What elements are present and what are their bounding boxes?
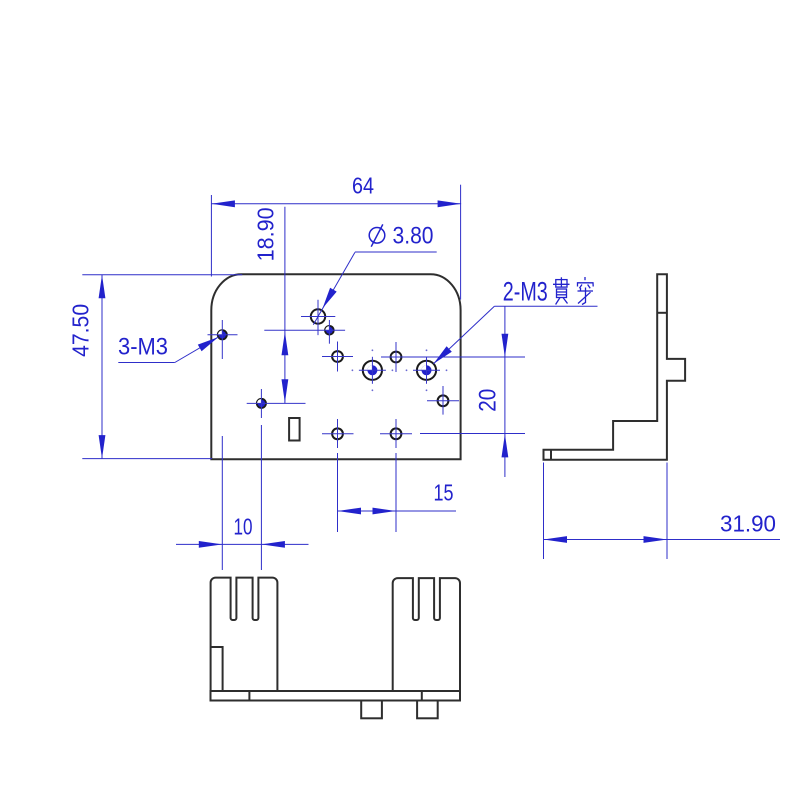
centerline cross and dots of hole H6 xyxy=(359,357,386,384)
rectangular slot in plate xyxy=(289,418,300,441)
bottom view base bar xyxy=(211,691,461,701)
hole H5 small hole row2 right xyxy=(391,352,402,363)
base bar seam left xyxy=(248,691,250,701)
centerline cross of hole H11 xyxy=(247,389,306,418)
centerline cross of hole H9 xyxy=(322,419,354,448)
leader and label 3-M3 xyxy=(118,337,218,362)
centerline cross of hole H3 (extends left to 18.90 reference) xyxy=(264,320,345,344)
centerline cross of hole H5 xyxy=(395,342,397,372)
side view seam line in vertical wall xyxy=(657,312,667,314)
bottom view tab right xyxy=(417,701,438,719)
CJK character guan (pierce) xyxy=(553,277,570,304)
svg-text:3.80: 3.80 xyxy=(393,223,434,250)
hole H10 bottom row right xyxy=(391,428,402,439)
dimension 20 vertical right xyxy=(381,306,525,477)
svg-text:20: 20 xyxy=(475,389,502,412)
leader and label 2-M3 through (CJK) xyxy=(434,306,598,363)
dimension 31.90 below side view xyxy=(544,463,781,560)
hole H6 2-M3 through hole left xyxy=(363,361,382,380)
side view L-bracket outline xyxy=(544,274,686,460)
svg-text:3-M3: 3-M3 xyxy=(118,334,168,361)
svg-text:47.50: 47.50 xyxy=(68,304,94,357)
dimension 10 lower left xyxy=(176,425,309,570)
hole H1 3-M3 tapped hole top-left xyxy=(218,330,227,339)
centerline cross and dots of hole H7 xyxy=(413,357,440,384)
svg-text:64: 64 xyxy=(352,173,374,199)
diameter symbol xyxy=(369,224,385,246)
CJK character chuan (through) xyxy=(578,277,594,305)
dimension 64 horizontal top xyxy=(211,185,461,300)
hole H11 tapped hole lower-left with blue quadrants xyxy=(257,399,266,408)
leader and label diameter 3.80 xyxy=(313,252,436,325)
svg-text:18.90: 18.90 xyxy=(253,207,279,261)
centerline cross of hole H2 xyxy=(301,300,335,335)
svg-text:2-M3: 2-M3 xyxy=(503,276,548,306)
dimension 15 bottom of plate xyxy=(338,453,457,532)
front view plate outline xyxy=(211,274,460,459)
base bar seam right xyxy=(421,691,423,701)
centerline cross of hole H1 xyxy=(208,320,238,359)
centerline cross of hole H4 xyxy=(322,342,353,372)
dimension 47.50 vertical left xyxy=(82,275,242,459)
side view seam tick bottom-left xyxy=(550,450,552,460)
hole H3 small tapped hole with blue quadrants xyxy=(325,326,334,335)
bottom view tab left xyxy=(361,701,382,719)
centerline cross of hole H8 xyxy=(427,386,459,415)
hole H9 bottom row left xyxy=(332,428,343,439)
svg-text:31.90: 31.90 xyxy=(720,511,776,537)
bottom view right tower outline xyxy=(393,578,460,691)
hole H2 diameter 3.80 drilled hole xyxy=(311,309,325,323)
bottom view left tower outline xyxy=(211,578,278,691)
svg-text:10: 10 xyxy=(234,514,253,540)
svg-text:15: 15 xyxy=(434,480,454,506)
hole H7 2-M3 through hole right xyxy=(417,361,436,380)
dimension 18.90 vertical (between hole rows) xyxy=(284,207,286,404)
bottom view left tower inner step xyxy=(211,647,223,691)
hole H4 small hole row2 left xyxy=(332,351,343,362)
centerline cross of hole H10 xyxy=(380,419,412,448)
hole H8 small hole right lower xyxy=(438,395,449,406)
